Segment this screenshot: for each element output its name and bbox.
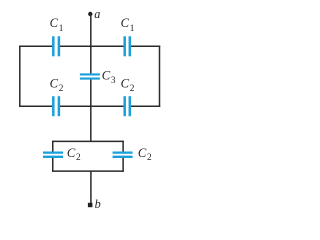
wire top rail middle segment [60, 45, 124, 47]
right branch wire of upper loop [159, 46, 161, 107]
lower left branch wire (upper stub) [52, 141, 54, 152]
svg-text:C: C [121, 76, 130, 90]
lower block top rail [52, 140, 124, 142]
lower right branch wire (lower stub) [122, 158, 124, 172]
capacitor C3 plates [80, 74, 100, 78]
wire lower block to node b [90, 171, 92, 203]
svg-text:2: 2 [76, 153, 81, 163]
svg-text:b: b [95, 197, 101, 211]
svg-text:C: C [121, 16, 130, 30]
capacitor C2 (lower left) plates [43, 153, 63, 157]
lower left branch wire (lower stub) [52, 158, 54, 172]
svg-text:3: 3 [111, 76, 116, 86]
node a (terminal dot) [88, 12, 92, 16]
capacitor C2 (lower right) plates [113, 153, 133, 157]
capacitor C2 (upper right) plates [125, 96, 130, 116]
capacitor C2 (upper left) plates [53, 96, 59, 116]
left branch wire of upper loop [19, 46, 21, 107]
svg-text:1: 1 [130, 24, 135, 34]
svg-text:C: C [102, 68, 111, 82]
wire middle rail left segment [19, 105, 52, 107]
svg-text:2: 2 [147, 153, 152, 163]
lower right branch wire (upper stub) [122, 141, 124, 152]
wire top rail left segment [19, 45, 52, 47]
capacitor C1 (right) plates [125, 36, 130, 56]
wire top rail to C3 top plate [90, 46, 92, 73]
wire C3 to lower block [90, 80, 92, 142]
wire top rail right segment [131, 45, 160, 47]
svg-text:a: a [94, 7, 100, 21]
lower block bottom rail [52, 170, 124, 172]
svg-text:2: 2 [59, 84, 64, 94]
capacitor C1 (left) plates [53, 36, 59, 56]
svg-text:1: 1 [59, 24, 64, 34]
svg-text:C: C [67, 146, 76, 160]
node b (terminal square) [88, 203, 93, 207]
svg-text:2: 2 [130, 84, 135, 94]
svg-text:C: C [50, 76, 59, 90]
wire middle rail center segment [60, 105, 124, 107]
svg-text:C: C [138, 146, 147, 160]
svg-text:C: C [50, 16, 59, 30]
wire a to top rail [90, 14, 92, 46]
wire middle rail right segment [131, 105, 160, 107]
